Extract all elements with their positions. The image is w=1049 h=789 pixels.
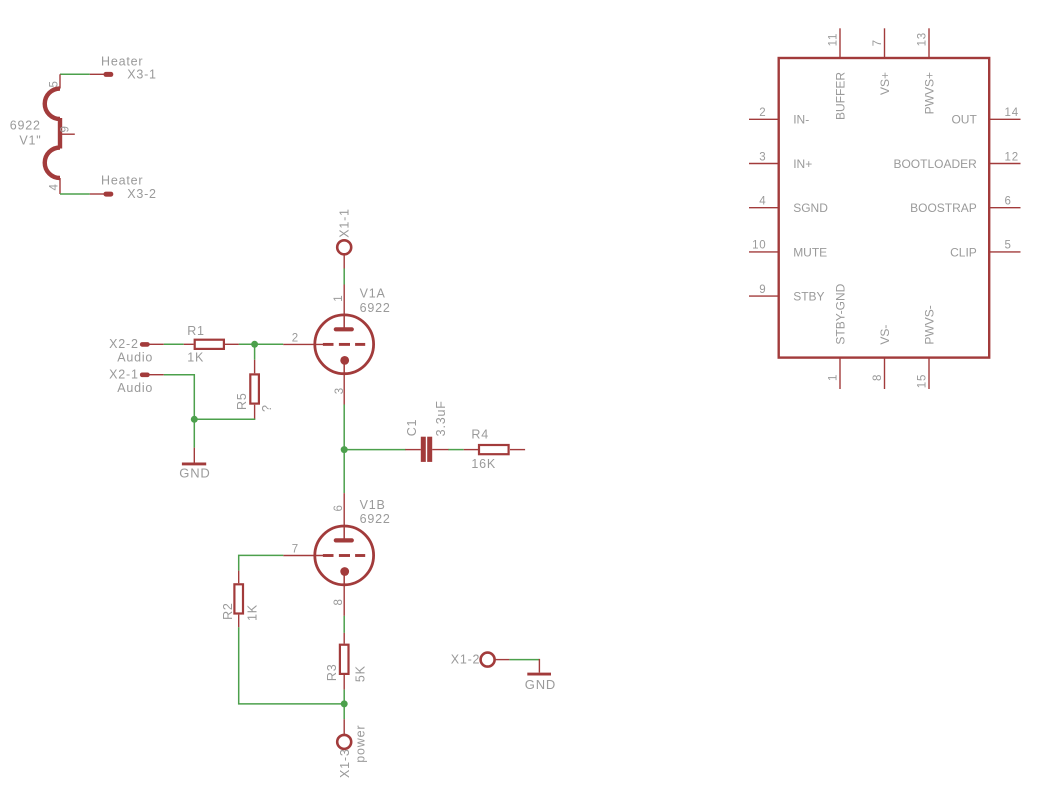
pin 10 lead	[749, 251, 779, 253]
resistor R2 bottom lead	[238, 615, 240, 628]
resistor R4 body	[479, 445, 509, 454]
resistor R3 bottom lead	[343, 675, 345, 690]
svg-text:14: 14	[1005, 107, 1019, 119]
svg-text:STBY-GND: STBY-GND	[833, 283, 847, 344]
ground symbol (X1-2)	[527, 673, 551, 676]
junction	[341, 446, 348, 453]
tube V1A envelope	[315, 315, 374, 374]
tube V1A pin 2 lead	[283, 343, 323, 345]
junction	[191, 416, 198, 423]
svg-text:power: power	[354, 725, 368, 763]
svg-text:12: 12	[1005, 151, 1019, 163]
resistor R3 body	[340, 645, 349, 674]
connector X3-2 pad	[104, 192, 114, 197]
connector X1-3 pad ring	[337, 735, 351, 749]
wire	[60, 73, 90, 75]
wire (junction to V1B pin 6)	[343, 450, 345, 494]
capacitor C1 plate 1	[421, 437, 426, 462]
tube V1B cathode dot	[340, 567, 349, 576]
resistor R5 top lead	[254, 360, 256, 374]
tube V1B pin 7 lead	[283, 555, 323, 557]
svg-text:?: ?	[260, 404, 274, 412]
svg-text:Heater: Heater	[101, 174, 143, 188]
tube V1A anode plate	[336, 327, 352, 331]
svg-text:STBY: STBY	[793, 290, 824, 304]
junction	[251, 341, 258, 348]
tube V1A cathode dot	[340, 356, 349, 365]
pin 13 lead	[928, 28, 930, 58]
svg-text:R3: R3	[325, 664, 339, 682]
wire	[239, 627, 345, 704]
svg-text:3: 3	[759, 151, 766, 163]
svg-text:10: 10	[752, 240, 766, 252]
pin 7 lead	[884, 28, 886, 58]
svg-text:PWVS+: PWVS+	[922, 72, 936, 114]
wire	[343, 269, 345, 285]
svg-text:1K: 1K	[187, 351, 204, 365]
resistor R3 top lead	[343, 633, 345, 644]
connector X3-2 pin lead	[90, 193, 105, 195]
svg-text:R5: R5	[235, 392, 249, 410]
svg-text:MUTE: MUTE	[793, 245, 827, 259]
tube V1A cathode lead	[343, 360, 345, 373]
pin 12 lead	[989, 163, 1020, 165]
capacitor C1 right lead	[432, 449, 449, 451]
svg-text:R4: R4	[471, 427, 489, 441]
pin 2 lead	[749, 118, 779, 120]
heater filament mid bar	[58, 118, 62, 149]
svg-text:GND: GND	[179, 466, 210, 481]
resistor R1 right lead	[225, 343, 239, 345]
svg-text:13: 13	[916, 32, 928, 46]
svg-text:11: 11	[827, 33, 839, 47]
svg-text:2: 2	[292, 332, 299, 344]
svg-text:V1A: V1A	[360, 286, 386, 300]
tube V1B grid dashes	[323, 554, 365, 557]
svg-text:Audio: Audio	[117, 381, 153, 395]
wire	[344, 449, 405, 451]
connector X2-1 lead	[149, 374, 164, 376]
wire	[239, 555, 284, 570]
heater filament arc top	[45, 89, 60, 120]
capacitor C1 plate 2	[427, 437, 432, 462]
svg-text:R1: R1	[187, 324, 205, 338]
resistor R2 body	[234, 584, 243, 613]
svg-text:9: 9	[60, 125, 72, 132]
connector X1-3 lead	[343, 719, 345, 734]
svg-text:6922: 6922	[360, 301, 391, 315]
ground lead (X1-2)	[538, 659, 540, 673]
svg-text:8: 8	[872, 374, 884, 381]
svg-text:1: 1	[333, 295, 345, 302]
svg-text:BOOSTRAP: BOOSTRAP	[910, 201, 977, 215]
svg-text:6: 6	[333, 504, 345, 511]
connector X2-2 lead	[149, 343, 164, 345]
wire	[509, 659, 539, 661]
svg-text:16K: 16K	[471, 457, 496, 471]
wire	[164, 375, 195, 448]
svg-text:6922: 6922	[10, 119, 41, 133]
resistor R1 body	[195, 340, 224, 349]
wire (anode V1A to junction)	[343, 405, 345, 450]
connector X3-1 pin lead	[90, 73, 105, 75]
heater filament arc bottom	[45, 148, 60, 179]
svg-text:3.3uF: 3.3uF	[434, 400, 448, 436]
pin 14 lead	[989, 118, 1020, 120]
svg-text:BUFFER: BUFFER	[833, 72, 847, 120]
svg-text:CLIP: CLIP	[950, 245, 977, 259]
junction	[341, 700, 348, 707]
op-amp IC U1 body	[779, 58, 990, 358]
svg-text:5K: 5K	[353, 665, 367, 682]
svg-text:PWVS-: PWVS-	[922, 305, 936, 344]
wire	[343, 690, 345, 720]
svg-text:X1-3: X1-3	[338, 748, 352, 778]
connector X1-1 lead	[343, 254, 345, 268]
svg-text:OUT: OUT	[951, 113, 977, 127]
svg-text:5: 5	[1005, 240, 1012, 252]
resistor R1 left lead	[184, 343, 194, 345]
resistor R4 left lead	[464, 449, 479, 451]
pin 15 lead	[928, 358, 930, 389]
ground lead	[193, 448, 195, 463]
wire	[448, 449, 463, 451]
svg-text:8: 8	[333, 598, 345, 605]
capacitor C1 left lead	[405, 449, 421, 451]
tube V1B envelope	[315, 526, 374, 585]
svg-text:C1: C1	[405, 419, 419, 437]
svg-text:V1B: V1B	[360, 498, 386, 512]
resistor R5 bottom lead	[254, 405, 256, 420]
svg-text:2: 2	[759, 107, 766, 119]
pin 9 lead	[749, 295, 779, 297]
pin 4 lead	[749, 207, 779, 209]
tube V1A pin 3 lead	[343, 374, 345, 405]
wire	[164, 343, 184, 345]
connector X3-1 pad	[104, 72, 114, 77]
svg-text:VS+: VS+	[878, 72, 892, 95]
tube V1A pin 1 lead	[343, 285, 345, 316]
wire	[254, 344, 256, 360]
tube V1'' heater pin 5 lead	[59, 74, 61, 88]
svg-text:6922: 6922	[360, 512, 391, 526]
wire	[60, 193, 90, 195]
resistor R2 top lead	[238, 571, 240, 584]
resistor R4 right lead	[510, 449, 525, 451]
ground symbol	[182, 462, 206, 465]
svg-text:VS-: VS-	[878, 325, 892, 345]
connector X2-2 pad	[140, 342, 150, 347]
resistor R5 body	[250, 374, 259, 403]
svg-text:3: 3	[334, 387, 346, 394]
tube V1A grid dashes	[323, 343, 365, 346]
tube V1B cathode lead	[343, 572, 345, 585]
tube V1B anode lead	[343, 526, 345, 540]
svg-text:IN-: IN-	[793, 113, 809, 127]
svg-text:X1-1: X1-1	[338, 208, 352, 238]
tube V1B pin 8 lead	[343, 585, 345, 616]
connector X1-1 pad ring	[337, 240, 351, 254]
svg-text:R2: R2	[221, 602, 235, 620]
svg-text:X3-1: X3-1	[127, 67, 157, 81]
svg-text:GND: GND	[525, 677, 556, 692]
svg-text:V1": V1"	[19, 134, 41, 148]
svg-text:4: 4	[49, 183, 61, 190]
svg-text:1: 1	[827, 374, 839, 381]
connector X1-2 lead	[495, 659, 510, 661]
wire	[239, 343, 283, 345]
svg-text:1K: 1K	[245, 604, 259, 621]
svg-text:Audio: Audio	[117, 350, 153, 364]
svg-text:9: 9	[759, 284, 766, 296]
svg-text:SGND: SGND	[793, 201, 828, 215]
svg-text:7: 7	[292, 543, 299, 555]
connector X1-2 pad ring	[481, 653, 495, 667]
svg-text:X1-2: X1-2	[451, 653, 481, 667]
svg-text:7: 7	[872, 39, 884, 46]
svg-text:X2-2: X2-2	[109, 337, 139, 351]
svg-text:6: 6	[1005, 196, 1012, 208]
pin 3 lead	[749, 163, 779, 165]
svg-text:IN+: IN+	[793, 157, 812, 171]
svg-text:X2-1: X2-1	[109, 368, 139, 382]
svg-text:4: 4	[759, 196, 766, 208]
wire	[194, 418, 255, 420]
pin 5 lead	[989, 251, 1020, 253]
tube V1B pin 6 lead	[343, 493, 345, 526]
connector X2-1 pad	[140, 373, 150, 378]
svg-text:X3-2: X3-2	[127, 187, 157, 201]
tube V1B anode plate	[336, 538, 352, 542]
pin 8 lead	[884, 358, 886, 389]
tube V1A anode lead	[343, 315, 345, 329]
pin 6 lead	[989, 207, 1020, 209]
pin 9 lead	[60, 133, 75, 135]
pin 11 lead	[839, 28, 841, 58]
svg-text:BOOTLOADER: BOOTLOADER	[893, 157, 977, 171]
svg-text:15: 15	[916, 374, 928, 388]
wire	[343, 616, 345, 633]
pin 4 lead	[59, 178, 61, 194]
pin 1 lead	[839, 358, 841, 389]
